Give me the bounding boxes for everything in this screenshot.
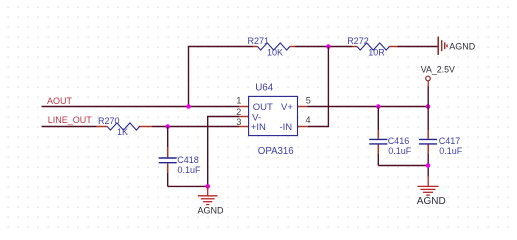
wire feedback node to -IN — [308, 47, 329, 127]
resistor R271 — [253, 43, 295, 50]
wire R271 to node — [295, 46, 353, 48]
wire R272 to AGND bar — [398, 46, 438, 48]
svg-text:10K: 10K — [267, 48, 283, 58]
svg-text:AOUT: AOUT — [47, 96, 73, 106]
svg-text:V+: V+ — [281, 102, 293, 113]
capacitor C417 — [419, 107, 437, 166]
svg-text:1: 1 — [236, 95, 241, 105]
svg-text:AGND: AGND — [417, 196, 446, 207]
junction C416 tap — [376, 104, 381, 109]
wire rail to ground — [427, 166, 429, 177]
junction ground rail left — [205, 184, 210, 189]
junction VA tap — [426, 104, 431, 109]
power symbol AGND (bar, top right) — [438, 37, 447, 55]
svg-text:+IN: +IN — [251, 122, 266, 133]
resistor R270 — [96, 123, 152, 130]
svg-text:AGND: AGND — [449, 41, 476, 51]
svg-text:0.1uF: 0.1uF — [388, 146, 412, 156]
wire R270 to +IN — [152, 126, 239, 128]
svg-text:0.1uF: 0.1uF — [439, 146, 463, 156]
svg-text:LINE_OUT: LINE_OUT — [48, 115, 93, 125]
svg-text:OPA316: OPA316 — [258, 146, 294, 157]
svg-text:C417: C417 — [439, 136, 461, 146]
wire feedback vertical and top — [189, 47, 254, 107]
svg-text:R272: R272 — [347, 36, 369, 46]
ground AGND (right) — [418, 176, 439, 195]
resistor R272 — [353, 43, 398, 50]
svg-text:U64: U64 — [255, 83, 274, 94]
svg-text:4: 4 — [306, 115, 311, 125]
svg-text:VA_2.5V: VA_2.5V — [421, 65, 455, 75]
junction feedback node — [326, 44, 331, 49]
wire VA to rail — [427, 86, 429, 107]
svg-text:C416: C416 — [388, 136, 410, 146]
wire LINE_OUT net — [42, 126, 97, 128]
svg-text:3: 3 — [236, 117, 241, 127]
svg-text:1K: 1K — [117, 127, 128, 137]
svg-text:R270: R270 — [98, 116, 120, 126]
power symbol VA_2.5V — [426, 76, 431, 87]
ground AGND (left) — [198, 186, 218, 204]
wire C418 ground rail — [168, 185, 208, 187]
capacitor C416 — [369, 107, 387, 166]
junction C418 tap — [165, 124, 170, 129]
svg-text:0.1uF: 0.1uF — [178, 165, 202, 175]
svg-text:5: 5 — [306, 95, 311, 105]
svg-text:AGND: AGND — [198, 205, 225, 215]
wire V+ rail — [307, 106, 428, 108]
svg-text:R271: R271 — [248, 36, 270, 46]
wire AOUT net — [42, 106, 240, 108]
svg-text:10R: 10R — [368, 48, 385, 58]
capacitor C418 — [159, 127, 177, 187]
wire capacitor ground rail — [378, 165, 428, 167]
svg-text:2: 2 — [236, 107, 241, 117]
junction feedback tap — [186, 104, 191, 109]
svg-text:-IN: -IN — [280, 122, 293, 133]
wire V- to ground rail — [208, 117, 239, 187]
op-amp U64 — [239, 96, 307, 135]
junction ground rail right — [426, 163, 431, 168]
svg-text:C418: C418 — [177, 155, 199, 165]
